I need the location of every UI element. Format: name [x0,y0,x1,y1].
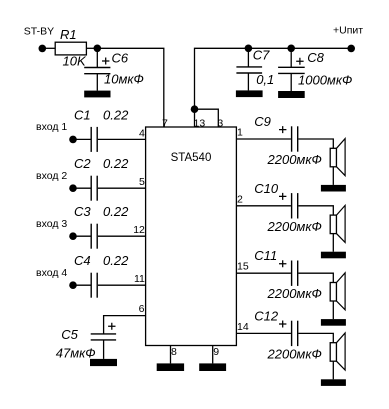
wire вход 1 to C1 [73,138,91,140]
svg-text:2: 2 [237,193,243,205]
speaker LS2 [330,215,336,234]
wire speaker 1 to ground [332,167,334,185]
capacitor C2 [90,176,92,201]
capacitor C8 [290,48,292,67]
wire IC pin 15 to C11 [236,272,291,274]
wire IC pin 8 to ground [170,346,172,364]
svg-text:+Uпит: +Uпит [333,25,363,37]
svg-text:2200мкФ: 2200мкФ [267,286,322,301]
ground pin 9 [199,363,226,371]
svg-text:C12: C12 [254,308,279,323]
capacitor C11 [291,261,293,286]
polarity + of C9 [279,126,286,133]
wire +Uпит rail to pin13 branch [195,48,352,109]
svg-text:вход 3: вход 3 [36,218,67,230]
svg-text:0.22: 0.22 [103,253,129,268]
wire вход 3 to C3 [73,235,91,237]
svg-text:0.22: 0.22 [103,156,129,171]
ground speaker 4 [321,379,346,386]
svg-text:C10: C10 [254,181,279,196]
svg-text:2200мкФ: 2200мкФ [267,219,322,234]
svg-text:0,1: 0,1 [256,72,274,87]
svg-text:7: 7 [162,117,168,129]
capacitor C4 [90,273,92,298]
svg-text:C3: C3 [74,204,91,219]
wire C3 to IC pin 12 [98,235,146,237]
op-amp IC U1 STA540 [146,127,237,346]
ground speaker 3 [321,319,346,326]
svg-text:13: 13 [194,117,206,129]
wire speaker 4 to ground [332,361,334,379]
capacitor C9 [291,126,293,151]
capacitor C12 [291,321,293,346]
svg-text:R1: R1 [60,27,77,42]
svg-text:вход 4: вход 4 [36,267,67,279]
speaker LS1 [330,148,336,167]
terminal ST-BY [39,45,47,53]
svg-text:10K: 10K [63,54,87,69]
polarity + of C8 [296,58,303,65]
polarity + of C5 [108,323,115,330]
wire C10 to speaker 2 [298,206,333,215]
wire вход 2 to C2 [73,187,91,189]
svg-text:10мкФ: 10мкФ [104,71,144,86]
wire IC pin 9 to ground [212,346,214,364]
polarity + of C10 [279,193,286,200]
polarity + of C12 [279,321,286,328]
svg-text:C4: C4 [74,253,91,268]
svg-text:C2: C2 [74,156,91,171]
wire вход 4 to C4 [73,284,91,286]
svg-text:1: 1 [237,127,243,139]
svg-text:4: 4 [139,127,145,139]
polarity + of C6 [102,58,109,65]
svg-text:8: 8 [171,346,177,358]
ground C6 [84,91,110,98]
terminal вход 2 [69,184,77,192]
wire junction to IC pin 3 [195,109,219,127]
speaker LS3 [330,283,336,302]
svg-text:C6: C6 [112,51,129,66]
svg-text:C1: C1 [74,107,91,122]
wire R1 to C6 junction [86,47,97,49]
ground pin 8 [157,363,184,371]
capacitor C1 [90,127,92,152]
terminal вход 1 [69,136,77,144]
wire IC pin 2 to C10 [236,205,291,207]
ground speaker 1 [321,185,346,192]
svg-text:3: 3 [217,117,223,129]
svg-text:вход 2: вход 2 [36,170,67,182]
svg-text:2200мкФ: 2200мкФ [267,152,322,167]
svg-text:15: 15 [237,261,249,273]
ground speaker 2 [321,252,346,259]
junction rail/C7 [245,45,253,53]
svg-text:5: 5 [139,176,145,188]
svg-text:STA540: STA540 [171,152,212,164]
svg-text:11: 11 [134,273,145,285]
wire IC pin 1 to C9 [236,138,291,140]
junction R1/C6 [94,45,102,53]
wire C2 to IC pin 5 [98,187,146,189]
wire IC pin 6 to C5 [104,316,146,334]
svg-text:C8: C8 [307,50,324,65]
svg-text:C11: C11 [254,248,277,263]
svg-text:C9: C9 [254,114,271,129]
speaker LS4 [330,343,336,362]
svg-text:9: 9 [213,346,219,358]
wire C11 to speaker 3 [298,273,333,282]
junction above pin 13 [191,105,199,113]
wire junction to IC pin 7 [97,48,164,127]
resistor R1 [55,42,86,55]
svg-text:ST-BY: ST-BY [24,25,54,37]
svg-text:0.22: 0.22 [103,107,129,122]
capacitor C7 [247,48,249,67]
ground C7 [236,90,263,97]
wire speaker 3 to ground [332,301,334,319]
svg-text:12: 12 [133,224,145,236]
wire ST-BY terminal to R1 [42,47,55,49]
wire C4 to IC pin 11 [98,284,146,286]
svg-text:2200мкФ: 2200мкФ [267,346,322,361]
ground C8 [278,91,305,98]
capacitor C10 [291,193,293,218]
wire speaker 2 to ground [332,234,334,252]
polarity + of C11 [279,260,286,267]
svg-text:1000мкФ: 1000мкФ [298,73,352,88]
svg-text:14: 14 [237,321,249,333]
svg-text:C7: C7 [253,47,270,62]
svg-text:вход 1: вход 1 [36,121,67,133]
svg-text:6: 6 [139,303,145,315]
svg-text:0.22: 0.22 [103,204,129,219]
svg-text:C5: C5 [61,327,78,342]
wire C9 to speaker 1 [298,139,333,148]
wire junction to IC pin 13 [194,109,196,127]
svg-text:47мкФ: 47мкФ [56,345,96,360]
terminal вход 3 [69,232,77,240]
capacitor C5 [91,333,116,335]
wire C12 to speaker 4 [298,333,333,342]
capacitor C3 [90,224,92,249]
terminal +Uпит [347,45,355,53]
capacitor C6 [96,48,98,67]
junction rail/C8 [287,45,295,53]
wire C1 to IC pin 4 [98,138,146,140]
terminal вход 4 [69,281,77,289]
ground C5 [90,359,117,366]
wire IC pin 14 to C12 [236,332,291,334]
